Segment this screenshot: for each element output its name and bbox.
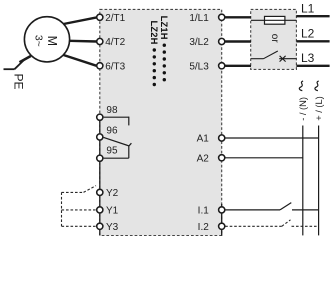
terminal 2/T1 <box>97 13 126 24</box>
svg-text:4/T2: 4/T2 <box>105 37 125 48</box>
terminal 4/T2 <box>97 37 126 48</box>
svg-text:6/T3: 6/T3 <box>105 61 125 72</box>
terminal 3/L2 <box>189 37 224 48</box>
terminal Y1 <box>97 206 119 217</box>
wire A1 to + rail <box>225 137 318 139</box>
motor M1 <box>24 17 69 62</box>
svg-text:1/L1: 1/L1 <box>189 13 209 24</box>
svg-text:I.2: I.2 <box>198 222 210 233</box>
svg-text:or: or <box>269 34 280 44</box>
svg-text:L2: L2 <box>301 26 315 40</box>
fuse F1 <box>251 16 296 24</box>
svg-text:96: 96 <box>106 126 118 137</box>
svg-text:LZ1H: LZ1H <box>159 16 169 40</box>
svg-text:PE: PE <box>12 74 26 90</box>
wire 5/L3 to fuse box <box>225 65 251 67</box>
dashed wire I.2 with switch <box>225 220 318 227</box>
rail + / (L) <box>314 81 324 235</box>
terminal 6/T3 <box>97 61 126 72</box>
svg-text:LZ2H: LZ2H <box>149 21 159 45</box>
wire fuse box to L3 <box>296 65 329 67</box>
wire fuse box to L1 <box>296 15 329 17</box>
wire fuse box to L2 <box>296 40 329 42</box>
wire motor to 2/T1 <box>64 17 97 24</box>
terminal 5/L3 <box>189 61 224 72</box>
wire A2 to - rail <box>225 157 303 159</box>
svg-text:I.1: I.1 <box>198 206 210 217</box>
terminal A1 <box>197 134 225 145</box>
svg-text:L3: L3 <box>301 51 315 65</box>
terminal Y3 <box>97 222 119 233</box>
svg-text:2/T1: 2/T1 <box>105 13 125 24</box>
svg-text:A1: A1 <box>197 134 210 145</box>
svg-text:L1: L1 <box>301 1 315 15</box>
svg-text:A2: A2 <box>197 153 210 164</box>
wire motor to 6/T3 <box>64 55 97 66</box>
switch S1 on I.1 <box>225 203 318 210</box>
wire: right border solid run I.1..I.2 <box>221 204 223 236</box>
svg-text:Y1: Y1 <box>106 206 119 217</box>
svg-text:95: 95 <box>106 146 118 157</box>
terminal 1/L1 <box>189 13 224 24</box>
terminal I.2 <box>198 222 225 233</box>
wire 3/L2 to fuse box <box>225 40 251 42</box>
node PE label <box>12 74 26 90</box>
terminal I.1 <box>198 206 225 217</box>
svg-text:+ / (L): + / (L) <box>314 96 324 121</box>
terminal Y2 <box>97 188 119 199</box>
terminal 98 <box>97 105 118 120</box>
fuse/disconnect box (dashed enclosure) <box>251 9 297 69</box>
svg-text:M: M <box>45 36 59 46</box>
ground PE tap <box>4 56 31 69</box>
svg-text:- / (N): - / (N) <box>298 97 308 121</box>
rail - / (N) <box>298 81 308 235</box>
label LZ2H column <box>149 21 159 87</box>
svg-text:Y2: Y2 <box>106 188 119 199</box>
svg-text:3/L2: 3/L2 <box>189 37 209 48</box>
label LZ1H column <box>159 16 169 82</box>
svg-text:5/L3: 5/L3 <box>189 61 209 72</box>
terminal A2 <box>197 153 225 164</box>
drive block U1 (dashed enclosure) <box>100 9 222 235</box>
wire motor to 4/T2 <box>69 40 96 43</box>
external dashed wiring to Y2/Y1/Y3 <box>62 186 97 227</box>
wire 1/L1 to fuse box <box>225 16 251 18</box>
circuit breaker Q1 <box>251 51 296 62</box>
svg-text:98: 98 <box>106 105 118 116</box>
wire: left border solid run 98..Y3 <box>99 117 101 235</box>
svg-text:3~: 3~ <box>33 35 45 47</box>
terminal 96 <box>97 126 118 140</box>
label or <box>269 34 280 44</box>
terminal 95 <box>97 146 118 162</box>
svg-text:Y3: Y3 <box>106 222 119 233</box>
relay contact R1 (95/96/98) <box>104 117 132 159</box>
